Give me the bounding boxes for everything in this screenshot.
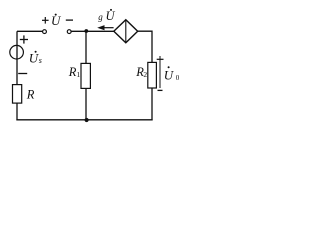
terminal a (port, open circle) xyxy=(43,30,47,34)
wire: bottom rail xyxy=(16,119,152,121)
wire: R2 bottom lead xyxy=(151,88,153,120)
controlled current source gU: diamond symbol with internal bar xyxy=(114,20,138,43)
resistor R1 body xyxy=(81,63,90,88)
wire: R1 bottom lead xyxy=(85,88,87,120)
svg-text:2: 2 xyxy=(143,70,147,79)
svg-text:g: g xyxy=(98,12,103,22)
voltage source Us: circle symbol xyxy=(10,45,24,59)
junction node: top of R1 branch xyxy=(84,29,88,33)
resistor R body xyxy=(13,85,22,104)
voltage source Us: - polarity mark xyxy=(18,73,27,75)
svg-text:U: U xyxy=(106,9,116,23)
svg-text:U: U xyxy=(164,68,175,83)
label: R1 xyxy=(68,65,81,79)
label: Uo (phasor output voltage) xyxy=(164,66,180,82)
wire: top rail from left branch to terminal a xyxy=(17,30,43,32)
junction node: bottom of R1 branch xyxy=(85,118,89,122)
current direction arrow for gU (points left) xyxy=(97,25,113,30)
wire: diamond right vertex to top-right corner and down to R2 xyxy=(138,31,152,62)
label: - sign of port voltage U1 xyxy=(66,19,73,21)
wire: R bottom lead xyxy=(16,103,18,120)
label: gU (phasor) controlled source value xyxy=(98,9,115,23)
resistor R2 body xyxy=(148,62,157,88)
voltage source Us: + polarity mark xyxy=(20,35,28,43)
label: R2 xyxy=(135,65,147,79)
svg-text:s: s xyxy=(39,56,42,65)
svg-text:0: 0 xyxy=(176,74,180,82)
label: + sign of port voltage U1 xyxy=(42,17,49,24)
svg-text:1: 1 xyxy=(77,70,81,79)
wire: left branch vertical (passes through source circle) xyxy=(16,31,18,84)
label: U (phasor) control voltage across port xyxy=(51,13,62,28)
wire: top rail from terminal b to diamond left vertex xyxy=(71,30,114,32)
terminal b (port, open circle) xyxy=(67,30,71,34)
wire: R1 top lead xyxy=(85,31,87,63)
output voltage Uo: reference line with + and - marks xyxy=(157,56,164,90)
svg-text:R: R xyxy=(26,88,35,102)
svg-text:U: U xyxy=(51,13,62,28)
label: Us (phasor) xyxy=(29,50,42,65)
svg-text:R: R xyxy=(68,65,77,79)
